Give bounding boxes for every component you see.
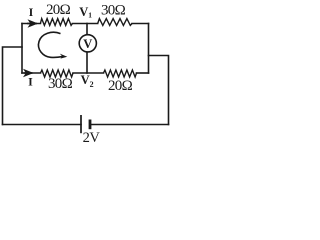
svg-text:V1: V1 <box>79 5 92 19</box>
resistor 20ohm top <box>40 19 72 26</box>
wire: top row right segment <box>132 23 149 25</box>
resistor 30ohm bottom <box>41 70 74 77</box>
resistor 30ohm top <box>98 19 132 26</box>
svg-text:I: I <box>29 5 34 19</box>
wire: right tap to outer loop <box>149 56 169 125</box>
current arrow top <box>27 23 37 25</box>
wire: battery to bottom right <box>91 124 169 126</box>
svg-text:30Ω: 30Ω <box>48 76 73 92</box>
wire: left tap to outer loop <box>3 47 23 125</box>
resistor 20ohm bottom <box>104 70 137 77</box>
svg-text:I: I <box>28 75 33 89</box>
current arrow bottom <box>24 72 33 74</box>
voltmeter U1 circle <box>79 35 96 52</box>
wire: middle row left segment <box>22 72 41 74</box>
svg-text:20Ω: 20Ω <box>108 78 133 94</box>
wire: inner loop right vertical <box>148 24 150 74</box>
wire: top row middle segment <box>72 23 97 25</box>
wire: voltmeter bottom lead <box>86 52 88 73</box>
svg-text:V2: V2 <box>81 73 94 89</box>
wire: top row left segment with current arrow <box>22 23 40 25</box>
loop direction arrow <box>38 32 62 57</box>
svg-text:2V: 2V <box>83 130 101 146</box>
svg-text:20Ω: 20Ω <box>46 2 71 18</box>
loop direction arrowhead <box>60 54 68 59</box>
wire: voltmeter top lead <box>86 24 88 35</box>
svg-text:30Ω: 30Ω <box>101 2 126 18</box>
battery long plate <box>80 115 82 133</box>
wire: middle row right segment <box>137 72 149 74</box>
wire: inner loop left vertical <box>21 24 23 74</box>
svg-text:V: V <box>83 37 92 51</box>
wire: middle row centre segment <box>73 72 104 74</box>
wire: bottom left to battery <box>3 124 82 126</box>
battery short plate <box>89 120 92 130</box>
